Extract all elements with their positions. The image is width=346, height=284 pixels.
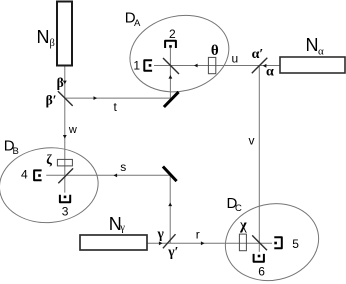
wire D_C splitter down to detector 6 — [258, 243, 260, 252]
arrow gamma right — [159, 241, 163, 245]
wire s horizontal to detector 4 — [46, 174, 170, 176]
wire mirror up through D_A splitter to detector 2 — [169, 48, 171, 98]
svg-text:v: v — [249, 134, 255, 148]
svg-text:α: α — [318, 45, 324, 57]
svg-text:r: r — [196, 228, 200, 242]
source N_beta rectangle — [57, 2, 72, 66]
wire gamma-prime up to s mirror — [169, 174, 171, 243]
svg-text:α: α — [266, 64, 274, 79]
wire beta source down — [64, 66, 66, 98]
wire t horizontal — [65, 97, 171, 99]
svg-text:s: s — [120, 160, 126, 174]
source N_gamma rectangle — [80, 235, 147, 250]
svg-text:χ: χ — [239, 217, 247, 233]
arrow t right — [94, 96, 98, 100]
beam splitter in D_B — [58, 168, 73, 183]
svg-text:1: 1 — [133, 58, 140, 72]
phase shifter zeta — [57, 159, 72, 166]
detector 1 — [144, 60, 152, 71]
phase shifter chi — [239, 234, 246, 251]
arrow s left — [114, 174, 118, 178]
beam splitter beta-prime — [58, 91, 73, 106]
phase shifter theta — [208, 57, 215, 73]
arrow up into D_A — [169, 75, 173, 79]
ellipse D_A — [122, 6, 236, 102]
ellipse D_B — [0, 144, 101, 227]
beam splitter in D_C — [252, 235, 267, 250]
detector 4 — [34, 170, 42, 180]
wire r horizontal from N_gamma to detector 5 — [147, 242, 272, 244]
svg-text:β′: β′ — [46, 92, 57, 107]
detector 2 — [165, 41, 176, 48]
svg-text:N: N — [306, 35, 319, 55]
svg-text:β: β — [50, 38, 55, 49]
svg-text:ζ: ζ — [46, 152, 52, 167]
detector 6 — [254, 254, 264, 262]
svg-text:w: w — [68, 124, 77, 136]
svg-text:γ′: γ′ — [167, 244, 178, 259]
arrow u left — [194, 64, 198, 68]
wire v vertical — [258, 66, 260, 244]
arrow alpha left — [263, 64, 267, 68]
arrow w down — [63, 135, 67, 139]
detector 3 — [60, 195, 70, 202]
svg-text:A: A — [134, 18, 141, 29]
detector 5 — [274, 237, 282, 248]
arrow up from gamma-prime — [168, 203, 172, 207]
arrow beta down — [63, 81, 67, 85]
svg-text:N: N — [37, 27, 50, 47]
beam splitter in D_A — [163, 58, 179, 74]
svg-text:γ: γ — [157, 226, 165, 241]
svg-text:4: 4 — [21, 168, 28, 182]
mirror on s path — [163, 167, 177, 182]
source N_alpha rectangle — [280, 57, 345, 73]
wire D_A horizontal from detector 1 to N_alpha — [154, 65, 280, 67]
svg-text:3: 3 — [62, 205, 69, 219]
svg-text:θ: θ — [211, 43, 219, 59]
beam splitter gamma-prime — [163, 234, 176, 248]
svg-text:C: C — [235, 203, 242, 214]
svg-text:B: B — [13, 146, 19, 157]
ellipse D_C — [218, 195, 326, 284]
svg-text:β: β — [57, 75, 64, 90]
svg-text:γ: γ — [119, 223, 125, 234]
arrow r right — [201, 241, 205, 245]
mirror on t path — [164, 92, 179, 107]
svg-text:2: 2 — [169, 27, 176, 41]
svg-text:u: u — [232, 51, 239, 65]
svg-text:α′: α′ — [252, 47, 264, 62]
mirror alpha-prime — [252, 58, 267, 73]
svg-text:5: 5 — [292, 237, 299, 251]
svg-text:6: 6 — [258, 265, 265, 279]
wire w path down to detector 3 — [64, 98, 66, 193]
